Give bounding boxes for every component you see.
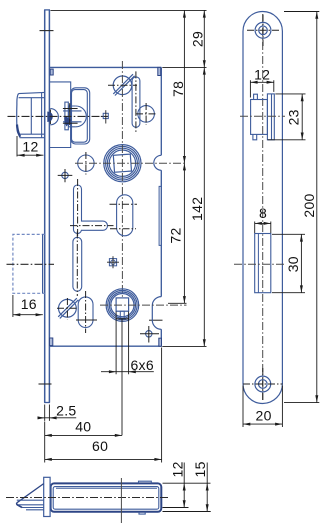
top screw slot diagonal [113,74,134,95]
arrows dim 200 [315,12,318,19]
dim 23 line [301,94,303,140]
arrows dim 15 [206,483,209,490]
arrows dim 78 [183,10,186,17]
faceplate back edge [48,10,50,403]
latch pocket lip [267,94,274,140]
latch pocket lip inner line [271,94,273,140]
dim 20 ext lines [243,386,282,428]
bottom view dimensions [163,463,211,512]
svg-text:12: 12 [169,461,185,477]
marker cross [107,256,119,268]
svg-text:20: 20 [256,408,272,424]
deadbolt hidden dashed outline [13,234,45,293]
svg-text:8: 8 [259,205,267,221]
dim 72 line [183,163,185,303]
follower ring 2 [106,146,140,180]
lower-left slot stadium [73,237,82,291]
small cross bottom right lines [140,326,159,343]
latch plate bottom line [49,147,70,149]
deadbolt face solid line [42,234,44,293]
follower ring 1 [104,145,141,182]
lug top-left [50,69,53,75]
central stadium slot [117,195,133,236]
svg-text:142: 142 [189,197,205,221]
bottom hole outer [255,376,271,392]
latch dark blob pawl [64,116,71,127]
latch bolt head outline [19,92,45,137]
svg-text:200: 200 [301,193,317,217]
bottom hole inner [259,380,268,389]
cylinder ring 4 [111,294,134,317]
small square marker A [103,113,108,118]
case inner [53,487,159,510]
right view dimension lines [243,12,319,428]
latch follower arc flat [49,110,51,125]
dim 142 bottom extension [162,345,206,347]
cylinder keyway notch [120,311,124,319]
bottom stadium slot [78,297,93,328]
latch crosshair vertical [69,103,71,125]
arrows dim 40 [45,434,52,437]
body bottom edge [49,345,161,347]
small target B [62,172,68,178]
dim 29 line [203,10,205,67]
bottom screw slot diagonal [58,298,78,318]
arrows dim 8 [255,222,262,225]
faceplate bottom cap [44,402,50,404]
dim 12 line bottom view [183,463,185,508]
dim 15 line [206,463,208,512]
dim 2.5 ext lines [45,405,50,421]
dim 60 left ext [44,422,46,463]
dim 6x6 ext lines [116,312,129,375]
latch frame outer [71,88,90,144]
latch wedge slant [17,484,44,503]
svg-text:23: 23 [286,109,302,125]
dim 16 ext [12,295,14,317]
cylinder axis horizontal [100,304,187,306]
left circle vertical tick [85,152,87,175]
arrows dim 142 [203,67,206,74]
bottom view bottom tab [139,512,145,514]
cutout tick line [149,319,163,321]
dim 12 bottom ext [163,507,189,509]
cylinder ring 3 [109,292,135,318]
strike plate outline [243,12,282,404]
dim 142 line [203,67,205,346]
dim 142 top extension [162,66,206,68]
bottom view axis vertical [120,478,122,523]
svg-text:72: 72 [168,227,184,243]
faceplate front edge [44,10,46,403]
dim 30 line [300,234,302,292]
deadbolt pocket [255,234,271,293]
arrows dim 16 [13,313,20,316]
latch crosshair ticks [63,109,78,124]
latch D inner slot lines [63,111,82,122]
svg-text:60: 60 [92,438,108,454]
circle hole right crosshair [136,103,157,125]
arrows dim 12 bottom view [183,483,186,490]
plate centerline [262,14,264,400]
latch D-follower chords [69,106,76,127]
right edge lower cutout [152,297,161,330]
upper slot stadium [132,77,140,127]
follower ring 3 [107,148,137,178]
latch tail bar [65,102,68,130]
arrows dim 2.5 outside [38,416,45,419]
dim 12 ext lines [250,80,273,97]
top screw crosshair [108,84,137,86]
latch bolt nose arc [17,94,19,135]
cylinder ring 1 [106,289,139,322]
arrows dim 12 [17,154,24,157]
lower-left slot centerline [76,232,78,297]
arrows dim 60 [45,458,52,461]
bottom screw circle [59,299,77,317]
dim 20 line [243,423,282,425]
right edge narrow slot [159,186,161,245]
arrows dim 30 [300,234,303,241]
top hole outer [255,22,271,38]
case inner second line [56,487,157,489]
arrows dim 20 [243,423,250,426]
dim 78 line [183,10,185,163]
dim 2.5 line [38,417,77,419]
faceplate top cap [44,9,50,11]
small square marker A cross [105,110,107,123]
svg-text:12: 12 [22,138,38,154]
marker circle [111,260,115,264]
latch follower arc at faceplate [50,109,58,125]
svg-text:78: 78 [170,81,186,97]
dim 12 latch ext line [16,136,18,157]
dim 200 top ext [284,11,319,13]
svg-text:15: 15 [192,461,208,477]
marker square with circle [109,259,116,266]
svg-text:40: 40 [75,419,91,435]
central stadium crosshair top [110,203,138,205]
bottom view centerline [6,497,168,499]
follower square [113,154,131,172]
latch D-follower semicircle [76,106,86,127]
bottom stadium centerline [85,291,87,333]
L-slot centerlines [70,179,114,236]
latch frame inner [72,90,88,143]
body top edge [49,66,161,68]
svg-text:12: 12 [254,67,270,83]
cylinder ring 2 [108,290,137,319]
svg-text:29: 29 [190,31,206,47]
top screw circle [113,76,132,95]
latch mounting plate [49,82,70,148]
latch wedge lines [17,500,44,510]
dim 40 ext [121,319,123,436]
faceplate tick top [40,30,54,32]
dim 23 ext lines [268,94,306,140]
bottom stadium tick [76,319,97,321]
top hole crosshair [247,15,279,47]
dim 8 ext lines [255,222,271,234]
small cross circle bottom right [146,331,152,337]
latch pocket top tab [254,94,258,99]
lug top-right [158,67,161,75]
dim 16 line [13,314,43,316]
faceplate bar side view [44,477,50,516]
arrows dim 6x6 outside [109,370,116,373]
dim 72 bottom extension [168,302,187,304]
deadbolt pocket inner line [257,234,259,293]
dim 60 line [45,458,162,460]
latch axis on plate [240,115,285,117]
faceplate tick bottom [39,383,52,385]
dim 12 latch line [17,154,43,156]
latch pocket main [251,100,268,135]
latch dark bevel corner [17,125,20,137]
deadbolt axis on plate [234,263,284,265]
circle hole right [138,106,155,123]
dim 30 ext lines [272,234,305,292]
body right edge segments [160,67,162,346]
lug bottom-left [50,338,53,346]
follower axis horizontal [75,162,187,164]
latch axis centerline [8,115,109,117]
deadbolt axis centerline [7,263,55,265]
left circle hole [78,155,94,171]
upper slot centerline [135,71,137,133]
top hole inner [259,26,268,35]
dim 29-78 top extension [51,9,207,11]
arrows dim 29 [203,10,206,17]
dim 60 right ext [161,348,163,463]
latch dark blob at faceplate [47,112,53,123]
dim 8 line [255,222,271,224]
bottom hole crosshair [243,368,283,400]
central stadium crosshair bottom [110,228,136,230]
arrows dim 12 right view [250,81,257,84]
right edge semicircle cutout [154,155,161,170]
latch pocket bottom tab [253,134,257,139]
dim 40 line [45,434,122,436]
dim 200 line [316,12,318,403]
latch wedge tip [17,503,22,508]
case outer thick [51,483,162,511]
L-slot union outline [74,185,108,234]
small target B cross [58,169,73,182]
dim 12 line [250,81,273,83]
dim 200 bottom ext [284,402,319,404]
svg-text:30: 30 [285,256,301,272]
svg-text:2.5: 2.5 [56,402,76,418]
dim 12/15 top ext [163,482,211,484]
svg-text:16: 16 [21,296,37,312]
arrows dim 72 [183,163,186,170]
follower axis vertical [121,61,123,297]
latch bolt bevel line [30,98,32,135]
dim 6x6 line [101,371,154,373]
arrows dim 23 [301,94,304,101]
svg-text:6x6: 6x6 [130,357,153,373]
latch bolt slot edge line [41,93,43,138]
cylinder square tick [116,318,129,320]
dim 15 bottom ext [163,511,211,513]
lug bottom-right [159,338,162,346]
bottom screw crosshair [57,298,78,320]
follower ring 4 [109,150,135,176]
bottom view top tab [139,481,152,483]
cylinder square hole [116,298,129,311]
